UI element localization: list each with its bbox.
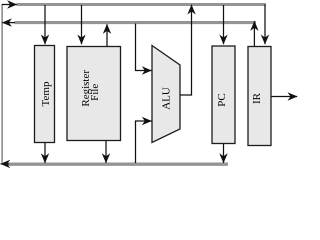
register IR [248,47,271,146]
wire: bus A down into Temp [44,5,46,44]
svg-text:PC: PC [216,93,228,106]
wire: bus B to ALU upper input [136,24,152,71]
register file [67,47,121,141]
wire: bus A down into Register File [81,5,83,44]
svg-text:Temp: Temp [40,81,52,106]
register PC [212,46,235,144]
register Temp [35,46,55,143]
wire: IR output to the right [271,96,298,98]
wire: bus A down into PC [223,5,225,44]
wire: bus C to ALU lower input [136,121,152,163]
wire: IR up to bus B end [253,21,255,46]
left vertical rail wire [1,4,3,163]
wire: Register File down into bus C [105,141,107,164]
wire: bus A end down into IR [264,5,266,45]
svg-text:ALU: ALU [161,87,173,110]
bus A (top bus) [17,3,267,6]
bus C (bottom bus) [7,162,228,165]
wire: bus C out to left (arrow left) [1,163,10,165]
svg-text:IR: IR [251,92,263,104]
wire: Temp down into bus C [44,143,46,164]
svg-text:File: File [89,84,101,101]
wire: ALU output up to bus A [180,5,192,95]
bus B (middle bus) [15,21,257,24]
wire: bus B out to left rail (arrow left) [2,22,15,24]
ALU [152,46,180,143]
wire: rail into bus A (arrow right) [2,4,17,6]
wire: Register File up to bus B [106,24,108,46]
wire: PC down into bus C [223,144,225,164]
